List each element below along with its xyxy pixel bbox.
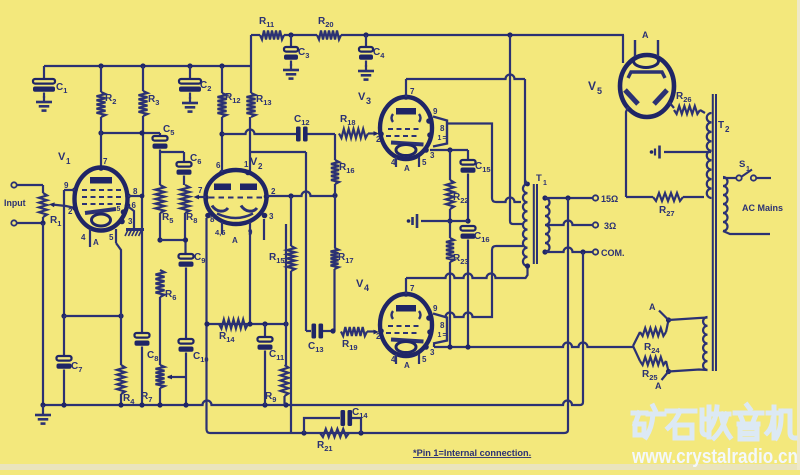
svg-text:5: 5 — [597, 86, 602, 96]
svg-text:9: 9 — [248, 228, 253, 237]
svg-text:1: 1 — [543, 180, 547, 187]
svg-text:9: 9 — [64, 181, 69, 190]
svg-text:COM.: COM. — [601, 248, 625, 258]
svg-text:1: 1 — [746, 166, 750, 173]
svg-text:V: V — [356, 278, 364, 290]
svg-text:8: 8 — [440, 321, 445, 330]
svg-text:9: 9 — [433, 107, 438, 116]
svg-text:4: 4 — [364, 283, 369, 293]
svg-text:4: 4 — [391, 158, 396, 167]
svg-text:6: 6 — [216, 161, 221, 170]
svg-text:A: A — [404, 361, 410, 370]
svg-text:Input: Input — [4, 198, 26, 208]
svg-text:2: 2 — [725, 125, 730, 134]
svg-text:AC Mains: AC Mains — [742, 203, 783, 213]
svg-text:8: 8 — [133, 187, 138, 196]
svg-text:5: 5 — [117, 206, 121, 213]
svg-text:V: V — [358, 91, 366, 103]
svg-text:7: 7 — [103, 157, 108, 166]
svg-text:5: 5 — [422, 158, 427, 167]
svg-text:4: 4 — [81, 233, 86, 242]
svg-text:2: 2 — [258, 162, 263, 171]
svg-text:www.crystalradio.cn: www.crystalradio.cn — [631, 446, 798, 468]
svg-text:A: A — [655, 381, 662, 391]
svg-text:9: 9 — [433, 304, 438, 313]
svg-text:1: 1 — [244, 160, 249, 169]
svg-text:3: 3 — [269, 212, 274, 221]
svg-text:2: 2 — [376, 332, 381, 341]
svg-text:8: 8 — [210, 215, 215, 224]
svg-text:3: 3 — [430, 151, 435, 160]
svg-text:15Ω: 15Ω — [601, 194, 618, 204]
svg-text:V: V — [58, 151, 66, 163]
svg-text:1: 1 — [438, 332, 442, 339]
svg-text:3Ω: 3Ω — [604, 221, 616, 231]
svg-text:7: 7 — [410, 87, 415, 96]
svg-text:A: A — [649, 302, 656, 312]
svg-text:=: = — [443, 135, 447, 142]
svg-text:T: T — [718, 120, 724, 131]
svg-text:3: 3 — [128, 217, 133, 226]
svg-text:V: V — [588, 79, 596, 93]
svg-text:A: A — [232, 236, 238, 245]
svg-text:1: 1 — [438, 135, 442, 142]
svg-text:8: 8 — [440, 124, 445, 133]
svg-text:=: = — [443, 332, 447, 339]
svg-text:2: 2 — [68, 207, 73, 216]
svg-text:T: T — [536, 173, 542, 184]
svg-text:*Pin 1=Internal connection.: *Pin 1=Internal connection. — [413, 448, 531, 458]
svg-text:7: 7 — [198, 186, 203, 195]
svg-text:A: A — [642, 30, 649, 40]
svg-text:S: S — [739, 159, 745, 170]
svg-text:A: A — [404, 164, 410, 173]
svg-text:V: V — [250, 156, 258, 168]
svg-text:4: 4 — [391, 355, 396, 364]
svg-text:5: 5 — [109, 233, 114, 242]
svg-text:3: 3 — [366, 96, 371, 106]
svg-text:1: 1 — [66, 157, 71, 166]
svg-text:3: 3 — [430, 348, 435, 357]
svg-text:7: 7 — [410, 284, 415, 293]
svg-text:4,5: 4,5 — [215, 228, 225, 237]
svg-text:A: A — [93, 238, 99, 247]
svg-text:2: 2 — [376, 135, 381, 144]
svg-text:2: 2 — [271, 187, 276, 196]
svg-text:5: 5 — [422, 355, 427, 364]
